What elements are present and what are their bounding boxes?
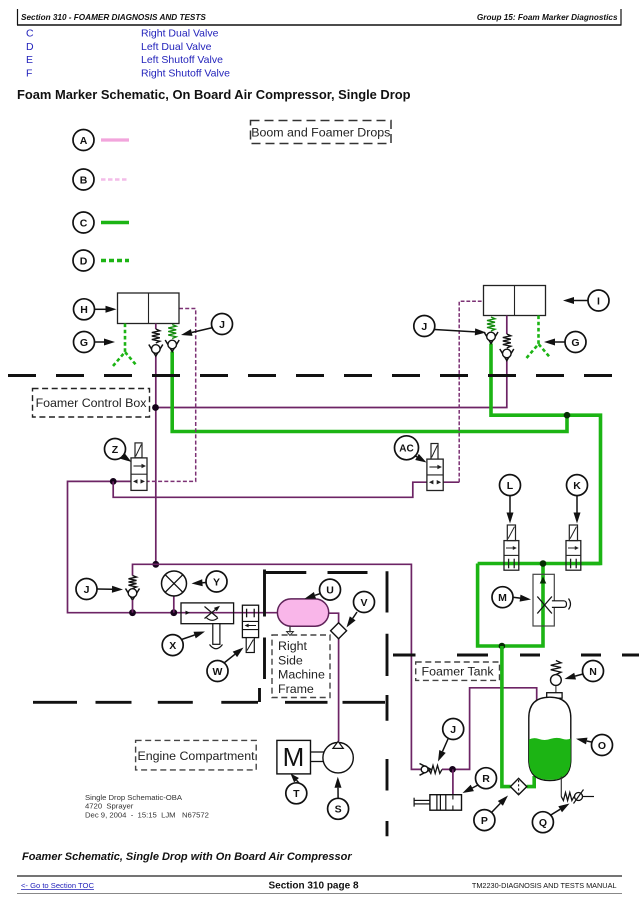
svg-text:Dec 9, 2004 - 15:15 LJM N: Dec 9, 2004 - 15:15 LJM N67572 (85, 811, 209, 820)
svg-text:Boom and Foamer Drops: Boom and Foamer Drops (251, 126, 390, 140)
tank U drain (289, 626, 291, 632)
label T (286, 783, 307, 804)
svg-text:L: L (507, 480, 514, 492)
svg-text:V: V (360, 597, 367, 609)
wire: purple from check valve spring to junction and up to tank neck (442, 688, 537, 770)
wire: purple from U tank to V fitting down to compressor (329, 613, 339, 741)
svg-text:J: J (84, 584, 90, 596)
cylinder R (430, 795, 462, 811)
valve block H (dual foamer valve left) (118, 293, 180, 324)
node: junction dot left of Z valve (110, 478, 117, 485)
svg-text:Right: Right (278, 639, 307, 653)
wire: purple stub down to R cylinder (452, 769, 454, 794)
header rule left tick (17, 9, 19, 25)
label O (592, 735, 613, 756)
svg-text:J: J (450, 724, 456, 736)
label Y (206, 571, 227, 592)
check valve J1 (air inlet) (129, 576, 137, 589)
solenoid valve K (569, 525, 577, 541)
foam liquid in tank O (529, 738, 571, 780)
svg-text:H: H (80, 304, 88, 316)
foamer tank boundary horiz y655 (393, 654, 639, 657)
solenoid valve Z (135, 443, 142, 458)
footer rule top (17, 875, 622, 877)
label G left (74, 332, 95, 353)
node: green junction on bus (540, 560, 547, 567)
svg-text:Machine: Machine (278, 668, 325, 682)
label R (476, 768, 497, 789)
svg-text:Single Drop Schematic-OBA: Single Drop Schematic-OBA (85, 793, 183, 802)
svg-text:Side: Side (278, 653, 303, 667)
wire: green from filter P up into tank bottom (527, 776, 535, 787)
svg-text:J: J (421, 321, 427, 333)
svg-text:I: I (597, 295, 600, 307)
svg-text:Foamer Tank: Foamer Tank (422, 664, 495, 678)
svg-text:D: D (26, 41, 34, 53)
check valve J1a (purple side) (155, 324, 157, 330)
svg-text:Y: Y (213, 576, 220, 588)
machine frame boundary vertical x387 (386, 571, 389, 836)
header underline (17, 24, 622, 26)
label S (328, 798, 349, 819)
legend D green dashed line (101, 259, 129, 263)
label Q (532, 812, 553, 833)
svg-text:Section 310 - FOAMER DIAGNOSIS: Section 310 - FOAMER DIAGNOSIS AND TESTS (21, 13, 206, 22)
svg-text:B: B (80, 174, 88, 186)
relief valve N (spring + ball) (551, 661, 561, 675)
label M (492, 587, 513, 608)
svg-text:C: C (80, 217, 88, 229)
svg-text:U: U (326, 584, 334, 596)
air tank U (pink capsule) (277, 599, 328, 626)
label U (320, 579, 341, 600)
gauge Y (circle with X) (173, 595, 175, 613)
svg-text:Foamer Schematic, Single Drop: Foamer Schematic, Single Drop with On Bo… (22, 851, 352, 863)
label H (74, 299, 95, 320)
svg-text:F: F (26, 68, 32, 80)
legend A pink solid line (101, 138, 129, 141)
drain valve Q (560, 777, 562, 797)
machine frame boundary horiz y572.5 (264, 571, 368, 574)
label G right (565, 332, 586, 353)
svg-text:Right Shutoff Valve: Right Shutoff Valve (141, 68, 230, 80)
svg-text:Foamer Control Box: Foamer Control Box (36, 396, 148, 410)
svg-text:G: G (571, 337, 579, 349)
node: green junction dot (564, 412, 571, 419)
legend B circle (73, 169, 94, 190)
legend B pink dashed line (101, 178, 129, 181)
wire: purple supply line across middle, down to foamer tank feed (133, 564, 421, 769)
svg-text:Foam Marker Schematic, On Boar: Foam Marker Schematic, On Board Air Comp… (17, 87, 411, 102)
svg-text:J: J (219, 319, 225, 331)
solenoid valve AC (431, 444, 438, 460)
motor T (box with M) (277, 740, 311, 774)
foamer drop G1 (green dashed Y) (124, 324, 127, 353)
Foamer Control Box label box (33, 389, 150, 418)
label Z (105, 439, 126, 460)
svg-text:C: C (26, 27, 34, 39)
node: junction dot at foamer control box (152, 404, 159, 411)
label N (583, 661, 604, 682)
wire: purple dashed pilot line from left dual valve block (147, 309, 196, 482)
svg-text:4720 Sprayer: 4720 Sprayer (85, 802, 134, 811)
svg-text:Right Dual Valve: Right Dual Valve (141, 27, 219, 39)
label W (207, 661, 228, 682)
filter P (diamond with dashed element) (510, 778, 526, 794)
label J mid (76, 579, 97, 600)
machine frame boundary (top, thick dashed) (8, 374, 630, 377)
wire: purple from left dual valve check to junction, down to control box net (155, 356, 157, 564)
flow control valve M (533, 574, 554, 626)
header rule right tick (620, 9, 622, 25)
check valve J2b (purple side) (506, 316, 508, 335)
svg-text:Left Shutoff Valve: Left Shutoff Valve (141, 54, 223, 66)
fitting V (diamond) (331, 623, 347, 639)
label J right (414, 316, 435, 337)
svg-text:TM2230-DIAGNOSIS AND TESTS MAN: TM2230-DIAGNOSIS AND TESTS MANUAL (472, 881, 617, 890)
foamer drop G2 (green dashed Y) (537, 316, 540, 345)
engine compartment boundary horiz y702.3 (33, 701, 385, 704)
svg-text:S: S (335, 804, 342, 816)
svg-text:O: O (598, 740, 606, 752)
Foamer Tank label box (416, 662, 500, 680)
label L (500, 475, 521, 496)
svg-text:<- Go to Section TOC: <- Go to Section TOC (21, 881, 94, 890)
svg-text:Frame: Frame (278, 682, 314, 696)
node: junction dot below gauge Y (170, 609, 177, 616)
wire: purple from junction to Z valve left port and down-left feed (68, 481, 278, 612)
compressor S (circle with intake triangle) (311, 751, 325, 753)
svg-text:Q: Q (539, 817, 547, 829)
wire: green down to foamer tank suction (502, 646, 511, 787)
regulator X box (181, 603, 234, 624)
label AC (395, 436, 419, 460)
svg-text:Left Dual Valve: Left Dual Valve (141, 41, 212, 53)
valve block I (dual foamer valve right) (484, 286, 546, 316)
valve W (vertical) (242, 605, 258, 637)
Right Side Machine Frame label box (272, 635, 330, 698)
svg-text:E: E (26, 54, 33, 66)
legend D circle (73, 250, 94, 271)
wire: green solenoid bus (478, 562, 601, 566)
svg-text:Group 15: Foam Marker Diagnost: Group 15: Foam Marker Diagnostics (477, 13, 618, 22)
svg-text:Section 310 page 8: Section 310 page 8 (268, 881, 358, 892)
svg-text:W: W (213, 666, 223, 678)
label J tank (443, 719, 464, 740)
label I (588, 290, 609, 311)
label J left (212, 314, 233, 335)
wire: purple from junction down then right to AC valve left port (113, 481, 427, 497)
svg-text:X: X (169, 640, 176, 652)
Boom and Foamer Drops label box (251, 121, 392, 144)
svg-text:R: R (482, 773, 490, 785)
check valve J1b (green side) (168, 325, 176, 339)
node: green junction on bottom rail (499, 643, 506, 650)
Engine Compartment label box (136, 740, 257, 770)
wire: purple pilot line to right dual valve block (443, 481, 459, 483)
check valve J2a (green side) (487, 317, 495, 331)
svg-text:N: N (589, 666, 597, 678)
wire: purple horizontal to right dual valve (156, 361, 507, 408)
label V (354, 592, 375, 613)
footer rule bottom (17, 893, 622, 895)
svg-text:M: M (498, 592, 507, 604)
solenoid valve L (507, 525, 515, 541)
svg-text:Engine Compartment: Engine Compartment (137, 749, 255, 763)
label X (162, 635, 183, 656)
label P (474, 810, 495, 831)
svg-text:T: T (293, 788, 300, 800)
svg-text:AC: AC (399, 444, 413, 455)
machine frame boundary vertical x265 (263, 570, 266, 680)
legend A circle (73, 130, 94, 151)
foamer tank O (547, 693, 562, 699)
svg-text:D: D (80, 255, 88, 267)
legend C circle (73, 212, 94, 233)
svg-text:G: G (80, 337, 88, 349)
regulator X stem and relief arc (213, 624, 220, 645)
svg-text:Z: Z (112, 444, 119, 456)
svg-text:K: K (573, 480, 581, 492)
node: junction dot below check valve J1 (129, 609, 136, 616)
wire: green loop left side and bottom rail (478, 564, 543, 647)
node: junction dot at foamer tank feed (449, 766, 456, 773)
wire: green from left block check valve down and across (172, 352, 567, 432)
svg-text:M: M (283, 742, 305, 772)
check valve J3 (tank feed) (420, 764, 432, 776)
legend C green solid line (101, 221, 129, 225)
svg-text:P: P (481, 815, 488, 827)
node: junction dot on main purple net (152, 561, 159, 568)
svg-text:A: A (80, 135, 88, 147)
label K (567, 475, 588, 496)
wire: green from right block check valve across and down right side (491, 344, 601, 564)
